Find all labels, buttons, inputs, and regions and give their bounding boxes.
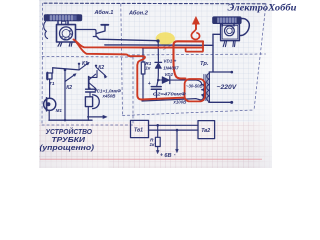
dashed enclosure: Abon2 box bottom xyxy=(123,54,266,55)
svg-text:К1: К1 xyxy=(82,61,88,67)
hook lever SA (top bar) xyxy=(101,24,108,26)
svg-text:УСТРОЙСТВО: УСТРОЙСТВО xyxy=(46,127,93,136)
svg-text:1к: 1к xyxy=(145,66,151,71)
dashed enclosure: handset-unit box right xyxy=(132,57,134,125)
transformer T secondary winding bumps xyxy=(207,74,209,102)
dashed enclosure: divider Abon1 / Abon2 xyxy=(121,4,123,116)
wire handset-unit bottom rail xyxy=(49,119,92,121)
svg-text:+: + xyxy=(160,153,163,159)
junction dot on bottom rail xyxy=(64,119,66,121)
svg-text:1к: 1к xyxy=(149,142,155,148)
diode VD2 cathode bar xyxy=(169,77,171,84)
red wire: drop to rectifier block xyxy=(174,41,204,78)
220V bottom terminal dot xyxy=(230,101,233,104)
wire M1 to bottom rail xyxy=(48,110,50,120)
svg-text:Абон.2: Абон.2 xyxy=(128,10,149,17)
red marker box around transformer primary xyxy=(185,79,205,101)
diode VD1 cathode bar xyxy=(155,61,162,63)
wire T1 to M1 xyxy=(49,79,51,98)
pink margin rule xyxy=(40,158,262,160)
dashed enclosure: left edge xyxy=(41,3,44,125)
wire 220V top stub xyxy=(209,71,231,73)
block Tv2 box xyxy=(198,121,215,139)
transistor VT emitter with arrow xyxy=(89,83,96,89)
svg-text:Тв2: Тв2 xyxy=(201,128,210,134)
node B junction dot xyxy=(157,79,160,82)
wire middle vertical of handset unit xyxy=(64,70,66,120)
microphone M1 center dot xyxy=(46,102,50,106)
svg-text:Т1: Т1 xyxy=(49,81,55,87)
svg-text:х100В: х100В xyxy=(172,99,187,104)
svg-text:VD2: VD2 xyxy=(165,72,174,77)
red wire: phone1 to line (lower) and left loop to bus xyxy=(77,43,185,100)
earpiece T1 flange xyxy=(46,73,48,80)
wire bottom bus of middle unit xyxy=(142,99,196,101)
capacitor C2 plates xyxy=(151,87,161,90)
resistor R xyxy=(155,137,160,146)
svg-text:~220V: ~220V xyxy=(217,84,238,91)
resistor R1 xyxy=(141,62,145,74)
capacitor C2 bottom lead xyxy=(156,89,158,100)
220V top terminal dot xyxy=(231,71,234,74)
wire W1 (upper line to node A) xyxy=(97,37,159,41)
microphone M1 circle xyxy=(44,98,56,110)
svg-text:К2: К2 xyxy=(98,65,104,71)
output arrow to Tv1 xyxy=(88,116,104,118)
wires Tv1 to Tv2 pair xyxy=(149,125,199,130)
transformer T primary winding xyxy=(202,85,205,100)
node A junction dot xyxy=(156,39,159,42)
dashed enclosure: outer top edge xyxy=(44,2,266,5)
wire phone2 lead vertical to transformer xyxy=(212,34,214,72)
capacitor C1 plates xyxy=(86,89,96,92)
svg-text:М1: М1 xyxy=(56,108,63,113)
resistor R1 top lead xyxy=(142,48,144,62)
diode VD2 triangle xyxy=(162,77,169,84)
speaker cone arc xyxy=(93,95,100,109)
switch K1 contact dot xyxy=(78,63,80,65)
svg-text:+: + xyxy=(148,81,151,87)
switch K2 lower arm xyxy=(65,75,74,82)
wire top rail to T1 xyxy=(52,68,54,73)
wire primary bottom to bus xyxy=(196,99,202,100)
svg-text:(упрощенно): (упрощенно) xyxy=(40,145,95,152)
svg-text:х450В: х450В xyxy=(102,93,117,98)
switch K1 arm xyxy=(79,64,87,70)
wire right branch to transistor xyxy=(90,71,97,78)
svg-text:~30-50В: ~30-50В xyxy=(186,83,203,88)
dashed enclosure: middle box bottom xyxy=(123,110,255,116)
capacitor C1 top lead xyxy=(89,88,91,89)
capacitor C1 bottom lead xyxy=(89,92,91,97)
wire phone2 lead horizontal xyxy=(213,33,221,35)
diode VD2 anode lead xyxy=(158,79,162,81)
telephone set of subscriber 2 (Абон.2) xyxy=(212,16,249,46)
wire 220V bottom stub xyxy=(209,101,232,103)
switch K2 contact dot xyxy=(95,65,97,67)
diode VD1 triangle xyxy=(155,63,161,68)
wire node A down through VD1 to C2 xyxy=(157,41,159,87)
switch K2 arm xyxy=(96,67,105,75)
wire speaker to bottom rail xyxy=(87,107,89,121)
svg-text:ЭлектроХобби: ЭлектроХобби xyxy=(228,3,297,13)
earpiece T1 body xyxy=(47,73,52,79)
hook lever SA (arm) xyxy=(97,25,106,34)
junction dot on lower wire xyxy=(176,129,179,132)
microphone M1 bar xyxy=(46,98,48,111)
resistor R top lead xyxy=(157,125,159,137)
speaker body xyxy=(85,97,92,107)
wire handset-unit top rail xyxy=(53,68,79,70)
dashed enclosure: handset-unit box bottom xyxy=(42,124,133,126)
transistor VT base bar xyxy=(88,77,90,88)
red annotation loop xyxy=(191,29,199,40)
svg-text:К2: К2 xyxy=(66,85,72,91)
svg-text:-: - xyxy=(174,152,176,158)
wire phone1 to hook lever xyxy=(76,30,96,37)
dashed enclosure: Abon1 bottom / handset-unit box top xyxy=(42,56,133,59)
yellow highlighter blob on node A xyxy=(156,32,175,45)
wire W2 (lower line to phone 2) xyxy=(105,44,213,46)
svg-text:ТРУБКИ: ТРУБКИ xyxy=(52,137,87,144)
resistor R bottom lead with arrow (+6V) xyxy=(157,147,159,151)
svg-text:Тр.: Тр. xyxy=(200,61,209,67)
telephone set of subscriber 1 (Абон.1) xyxy=(44,14,82,46)
pencil scratch mark xyxy=(161,43,173,51)
wire node row y=48 xyxy=(142,47,158,49)
junction dot on top rail xyxy=(64,69,67,72)
svg-text:1N4007: 1N4007 xyxy=(163,66,179,71)
red annotation arrow head xyxy=(192,17,199,25)
transformer T secondary winding line xyxy=(208,72,210,102)
svg-text:С2=470мкФ: С2=470мкФ xyxy=(153,91,187,96)
junction dot above resistor R xyxy=(156,124,159,127)
wire with arrow (-6V) xyxy=(176,130,178,150)
block Tv1 box xyxy=(131,120,149,137)
svg-text:Абон.1: Абон.1 xyxy=(94,9,114,16)
transistor VT collector xyxy=(89,74,95,79)
svg-text:Тв1: Тв1 xyxy=(134,127,143,133)
svg-text:6В: 6В xyxy=(164,153,171,159)
wire VD2 to transformer primary xyxy=(170,80,202,84)
transformer T core xyxy=(204,75,206,101)
dashed enclosure: right edge xyxy=(254,4,266,110)
red wire: phone1 to line (upper) xyxy=(74,40,204,48)
red wire: right return hook xyxy=(186,42,203,52)
svg-text:VD1 +: VD1 + xyxy=(163,58,176,63)
switch K1 contact tick xyxy=(78,65,80,70)
resistor R1 bottom lead xyxy=(142,74,144,101)
red annotation arrow shaft xyxy=(195,23,197,30)
